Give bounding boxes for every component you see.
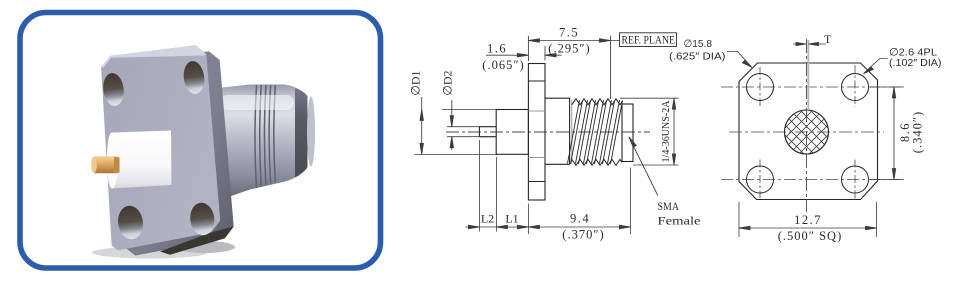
mounting hole top-right [842,74,869,101]
svg-text:12.7: 12.7 [794,213,822,227]
center circle [785,110,829,154]
svg-text:(.625″ DIA): (.625″ DIA) [669,51,726,63]
svg-text:L1: L1 [505,212,518,226]
photo flange hole top-left [101,72,125,107]
photo body dark groove ring [295,88,308,178]
hole vertical centerline top-right [854,65,856,107]
svg-text:1.6: 1.6 [487,42,507,56]
dim 12.7 extension lines [739,202,877,237]
flange side view outline [528,64,545,201]
dim 7.5 line [528,40,619,42]
flange hidden bore lines [528,111,545,158]
svg-text:(.370″): (.370″) [562,228,604,242]
svg-text:1/4-36UNS-2A: 1/4-36UNS-2A [661,100,672,162]
extension dielectric top left [442,109,496,111]
REF. PLANE box [620,33,677,47]
svg-text:REF. PLANE: REF. PLANE [622,34,676,46]
extension line flange left top [527,36,529,61]
dim 8.6 vertical line [893,87,895,180]
thread dim vertical line [673,98,675,165]
thread flank lines [568,100,623,164]
svg-text:L2: L2 [481,212,494,226]
dim 8.6 extension lines [870,87,904,180]
dielectric outline [496,110,528,155]
extension line REF plane [610,36,612,100]
leader dia2.6 [864,59,888,74]
svg-text:7.5: 7.5 [559,26,579,40]
bottom dim baseline L2 L1 9.4 [466,226,631,228]
dim 12.7 line [739,227,877,229]
extension line dielectric face down [495,157,497,232]
photo frame blue rounded border [20,13,381,269]
photo flange top edge highlight [101,45,206,68]
dim 1.6 line [486,54,528,56]
hole vertical centerline bottom-right [854,160,856,201]
photo flange front face [101,45,220,250]
photo flange hole bottom-right [188,201,216,236]
dim T line and arrows [793,43,826,45]
dim D1 vertical line [421,97,423,154]
svg-text:(.102″ DIA): (.102″ DIA) [889,57,942,69]
extension dielectric bottom left [415,153,497,155]
coupling end section outline [622,104,633,162]
extension tick flange right top [544,46,546,61]
thread OD extension top [620,97,679,99]
mounting hole bottom-left [747,166,774,193]
svg-text:∅D1: ∅D1 [409,70,423,95]
svg-text:(.500″ SQ): (.500″ SQ) [778,229,843,243]
thread crest top zigzag [572,99,622,105]
svg-text:∅15.8: ∅15.8 [684,38,713,50]
hole vertical centerline top-left [759,67,761,107]
photo flange hole bottom-left [116,204,145,240]
extension pin bottom left [447,136,496,138]
center pin outline [479,127,496,137]
mounting hole top-left [747,74,774,101]
photo connector body cylinder [218,85,308,201]
SMA leader line [629,137,658,196]
extension line flange left down [527,204,529,235]
centerline top hole row [721,86,904,88]
photo body highlight band [220,95,294,110]
thread crest bottom zigzag [572,159,622,165]
extension line pin tip down [478,140,480,232]
dim D2 vertical line with outside arrows [451,100,453,150]
svg-text:T: T [824,32,832,46]
photo body knurl ring lines [255,85,275,188]
svg-text:9.4: 9.4 [570,212,590,226]
center circle crosshatch [753,80,860,180]
body neck outline [545,98,570,164]
svg-text:∅D2: ∅D2 [441,70,455,95]
photo flange back side plate [115,51,234,255]
svg-text:(.340″): (.340″) [911,111,925,153]
centerline bottom hole row [721,179,904,181]
svg-text:(.065″): (.065″) [482,58,524,72]
photo body end face [307,97,315,167]
centerline center horizontal [729,131,884,133]
photo shadow under flange [92,241,235,259]
flange chamfer line top [528,80,545,82]
photo dielectric white cylinder [107,131,172,189]
gray aux vertical mark at T [807,40,809,110]
centerline vertical main [806,39,808,212]
photo flange hole top-right [182,60,206,95]
svg-text:SMA: SMA [658,199,680,213]
photo center pin [91,156,119,173]
thread relief line [571,100,573,164]
flange chamfer line bottom [528,181,545,183]
centerline horizontal [446,131,650,133]
flange square outline with chamfered corners [739,63,878,200]
extension line body end down [629,168,631,235]
svg-text:(.295″): (.295″) [548,42,590,56]
mounting hole bottom-right [842,166,869,193]
thread OD extension bottom [633,164,679,166]
svg-text:Female: Female [658,214,701,228]
hole vertical centerline bottom-left [759,160,761,201]
extension pin top left [447,126,479,128]
leader dia15.8 [727,52,752,68]
photo flange dark bottom-right edge [160,227,234,255]
